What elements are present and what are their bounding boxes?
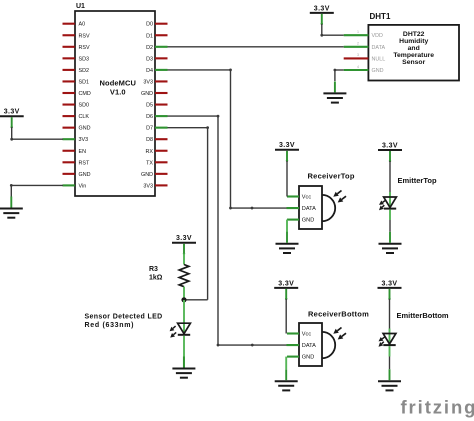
ground at sensor LED — [172, 357, 195, 378]
svg-text:R3: R3 — [149, 266, 158, 273]
svg-text:DATA: DATA — [302, 206, 316, 212]
junction node R3 / LED / D7 — [181, 297, 186, 302]
svg-text:3.3V: 3.3V — [278, 280, 294, 287]
ReceiverTop pin GND — [287, 219, 299, 221]
ReceiverBottom pin GND — [287, 356, 299, 358]
svg-text:Sensor Detected LED: Sensor Detected LED — [85, 314, 163, 321]
svg-text:fritzing: fritzing — [401, 396, 474, 417]
svg-text:3.3V: 3.3V — [4, 109, 20, 116]
svg-text:D7: D7 — [146, 126, 153, 132]
wire ReceiverBottom GND to ground — [285, 357, 287, 369]
U1 left pin 3 RSV — [63, 45, 90, 51]
U1 right pin 22 GND — [141, 91, 167, 97]
ground at DHT1 GND — [323, 81, 346, 102]
wire EmitterTop cathode to ground — [389, 210, 391, 232]
U1 left pin 12 EN — [63, 149, 87, 155]
svg-text:Sensor: Sensor — [402, 59, 425, 66]
wire 3.3V to DHT1 VDD — [320, 24, 343, 37]
svg-text:EN: EN — [79, 149, 87, 155]
svg-text:D3: D3 — [146, 56, 153, 62]
svg-text:GND: GND — [372, 68, 384, 74]
U1 left pin 1 A0 — [63, 22, 86, 28]
wire U1 D7 to R3/LED junction — [168, 126, 210, 300]
svg-text:GND: GND — [302, 355, 314, 361]
svg-text:Humidity: Humidity — [399, 38, 428, 45]
DHT1 pin 2 DATA — [344, 42, 386, 51]
U1 left pin 11 3V3 — [63, 137, 89, 143]
power +3.3V at EmitterBottom — [378, 280, 402, 300]
svg-text:Vcc: Vcc — [302, 332, 312, 338]
ground at EmitterTop — [379, 232, 402, 253]
U1 left pin 15 Vin — [63, 183, 87, 189]
svg-text:SD3: SD3 — [79, 56, 90, 62]
ReceiverBottom pin DATA — [287, 344, 300, 346]
U1 left pin 8 SD0 — [63, 103, 90, 109]
photodetector ReceiverBottom — [299, 310, 369, 367]
wire EmitterBottom cathode to ground — [389, 346, 391, 369]
power +3.3V at DHT1 VDD — [310, 5, 334, 25]
svg-text:GND: GND — [302, 218, 314, 224]
LED EmitterTop — [379, 176, 437, 210]
U1 right pin 18 D2 — [146, 45, 167, 51]
U1 left pin 2 RSV — [63, 33, 90, 39]
svg-text:3V3: 3V3 — [143, 79, 153, 85]
svg-text:RSV: RSV — [79, 33, 90, 39]
svg-text:2: 2 — [357, 42, 359, 46]
svg-text:3.3V: 3.3V — [382, 142, 398, 149]
wire 3.3V to U1 3V3 — [10, 127, 63, 141]
ground at EmitterBottom — [378, 369, 401, 390]
wire 3.3V to EmitterBottom anode — [389, 299, 391, 334]
svg-text:TX: TX — [146, 160, 153, 166]
svg-text:EmitterBottom: EmitterBottom — [397, 311, 449, 320]
svg-text:4: 4 — [357, 65, 359, 69]
LED EmitterBottom — [379, 311, 449, 347]
svg-text:DATA: DATA — [372, 45, 386, 51]
power +3.3V at U1 3V3 — [0, 109, 24, 129]
wire U1 D2 to DHT1 DATA — [168, 46, 344, 48]
U1 left pin 13 RST — [63, 160, 90, 166]
ReceiverTop pin Vcc — [287, 195, 299, 197]
U1 right pin 26 D8 — [146, 137, 167, 143]
svg-text:ReceiverTop: ReceiverTop — [308, 172, 355, 181]
svg-text:3.3V: 3.3V — [314, 5, 330, 12]
wire U1 Vin to ground — [10, 184, 63, 197]
svg-text:NULL: NULL — [372, 56, 386, 62]
svg-text:and: and — [408, 45, 420, 52]
svg-text:SD0: SD0 — [79, 103, 90, 109]
svg-text:EmitterTop: EmitterTop — [398, 176, 437, 185]
sensor DHT1 DHT22 — [368, 12, 459, 81]
svg-text:3.3V: 3.3V — [176, 235, 192, 242]
svg-text:DATA: DATA — [302, 343, 316, 349]
svg-text:3.3V: 3.3V — [279, 142, 295, 149]
svg-text:GND: GND — [79, 172, 91, 178]
ReceiverBottom pin Vcc — [287, 332, 299, 334]
IC U1 NodeMCU V1.0 — [75, 3, 155, 196]
svg-text:3V3: 3V3 — [79, 137, 89, 143]
U1 left pin 6 SD1 — [63, 79, 90, 85]
svg-text:D4: D4 — [146, 68, 153, 74]
resistor R3 1k — [149, 254, 189, 300]
svg-text:Temperature: Temperature — [393, 52, 434, 59]
svg-text:VDD: VDD — [372, 33, 383, 39]
ReceiverTop pin DATA — [287, 207, 300, 209]
fritzing watermark — [401, 396, 474, 417]
photodetector ReceiverTop — [299, 172, 355, 230]
svg-text:U1: U1 — [76, 3, 85, 10]
power +3.3V at R3 — [172, 235, 196, 255]
U1 left pin 5 SD2 — [63, 68, 90, 74]
svg-text:D0: D0 — [146, 22, 153, 28]
U1 right pin 27 RX — [146, 149, 168, 155]
svg-text:GND: GND — [141, 172, 153, 178]
svg-text:CLK: CLK — [79, 114, 90, 120]
svg-text:V1.0: V1.0 — [110, 88, 126, 97]
svg-text:D8: D8 — [146, 137, 153, 143]
U1 left pin 14 GND — [63, 172, 91, 178]
svg-text:RSV: RSV — [79, 45, 90, 51]
power +3.3V at EmitterTop — [378, 142, 402, 162]
U1 right pin 20 D4 — [146, 68, 167, 74]
svg-text:Vcc: Vcc — [302, 195, 312, 201]
svg-text:3.3V: 3.3V — [382, 280, 398, 287]
svg-text:D5: D5 — [146, 103, 153, 109]
svg-text:A0: A0 — [79, 22, 86, 28]
svg-text:CMD: CMD — [79, 91, 91, 97]
svg-text:GND: GND — [141, 91, 153, 97]
DHT1 pin 4 GND — [344, 65, 384, 74]
U1 right pin 28 TX — [146, 160, 167, 166]
svg-text:SD2: SD2 — [79, 68, 90, 74]
svg-text:RX: RX — [146, 149, 154, 155]
power +3.3V at ReceiverTop — [275, 142, 299, 162]
svg-text:ReceiverBottom: ReceiverBottom — [308, 310, 369, 319]
power +3.3V at ReceiverBottom — [274, 280, 298, 300]
U1 right pin 30 3V3 — [143, 183, 167, 189]
U1 right pin 21 3V3 — [143, 79, 167, 85]
U1 right pin 17 D1 — [146, 33, 167, 39]
svg-text:GND: GND — [79, 126, 91, 132]
svg-text:D1: D1 — [146, 33, 153, 39]
ground at U1 Vin — [0, 197, 23, 218]
U1 left pin 4 SD3 — [63, 56, 90, 62]
svg-text:NodeMCU: NodeMCU — [100, 79, 137, 88]
svg-text:3: 3 — [357, 53, 359, 57]
U1 left pin 9 CLK — [63, 114, 90, 120]
svg-text:Red (633nm): Red (633nm) — [85, 322, 135, 329]
U1 right pin 23 D5 — [146, 103, 167, 109]
wire ReceiverTop GND to ground — [286, 220, 288, 232]
U1 right pin 19 D3 — [146, 56, 167, 62]
wire U1 D4 to ReceiverTop DATA — [168, 69, 288, 210]
svg-text:DHT1: DHT1 — [370, 12, 391, 21]
DHT1 pin 3 NULL — [344, 53, 386, 62]
U1 right pin 25 D7 — [146, 126, 167, 132]
ground at ReceiverTop — [276, 232, 299, 253]
svg-text:1kΩ: 1kΩ — [149, 275, 163, 282]
U1 left pin 7 CMD — [63, 91, 91, 97]
wire 3.3V to ReceiverTop Vcc — [286, 161, 288, 197]
U1 right pin 29 GND — [141, 172, 167, 178]
wire 3.3V to EmitterTop anode — [389, 161, 391, 197]
wire 3.3V to ReceiverBottom Vcc — [285, 299, 287, 334]
svg-text:D2: D2 — [146, 45, 153, 51]
svg-text:3V3: 3V3 — [143, 183, 153, 189]
U1 right pin 24 D6 — [146, 114, 167, 120]
svg-text:Vin: Vin — [79, 183, 87, 189]
U1 right pin 16 D0 — [146, 22, 167, 28]
svg-text:DHT22: DHT22 — [403, 31, 425, 38]
LED Sensor Detected Red 633nm — [85, 300, 191, 368]
svg-text:SD1: SD1 — [79, 79, 90, 85]
ground at ReceiverBottom — [275, 369, 298, 390]
svg-text:RST: RST — [79, 160, 90, 166]
wire U1 D6 to ReceiverBottom DATA — [168, 115, 287, 347]
svg-text:1: 1 — [357, 30, 359, 34]
svg-text:D6: D6 — [146, 114, 153, 120]
DHT1 pin 1 VDD — [344, 30, 383, 39]
wire DHT1 GND to ground — [334, 69, 344, 81]
U1 left pin 10 GND — [63, 126, 91, 132]
